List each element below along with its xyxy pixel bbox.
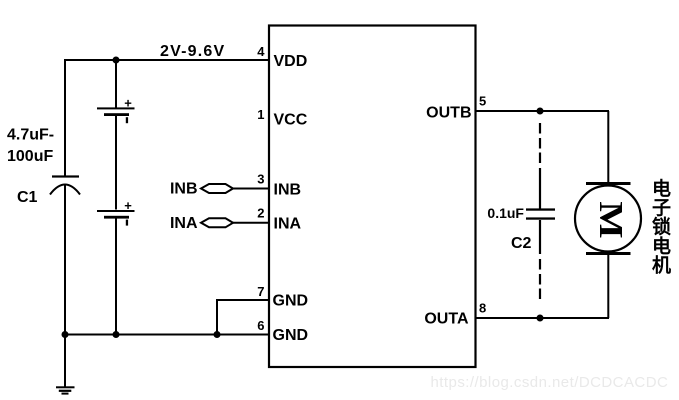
svg-text:6: 6	[257, 318, 264, 333]
svg-text:8: 8	[479, 301, 486, 316]
connector INA symbol	[201, 218, 233, 227]
wire battery branch middle	[115, 116, 117, 210]
svg-text:2V-9.6V: 2V-9.6V	[160, 43, 225, 60]
svg-text:VCC: VCC	[274, 112, 308, 129]
capacitor C2 dashed lead upper	[539, 123, 541, 209]
wire OUTA net	[476, 317, 610, 319]
pin 7 number	[257, 284, 264, 299]
pin 1 name VCC	[274, 112, 308, 129]
ground	[56, 386, 75, 394]
pin 5 number	[479, 94, 486, 109]
svg-text:1: 1	[257, 107, 264, 122]
svg-text:INB: INB	[274, 181, 302, 198]
IC U1 body	[269, 26, 476, 368]
wire left vertical upper (to C1)	[64, 60, 66, 176]
battery B1	[97, 96, 135, 124]
capacitor C1 ref label	[17, 189, 38, 206]
wire ground stub	[64, 335, 66, 387]
pin 4 name VDD	[274, 53, 308, 70]
svg-text:0.1uF: 0.1uF	[487, 205, 524, 221]
pin 8 number	[479, 301, 486, 316]
pin 2 number	[257, 206, 264, 221]
pin 3 number	[257, 172, 264, 187]
pin 6 number	[257, 318, 264, 333]
capacitor C2	[526, 208, 555, 219]
pin 3 name INB	[274, 181, 302, 198]
svg-text:OUTB: OUTB	[426, 104, 471, 121]
node junction VDD/battery	[113, 57, 120, 64]
svg-text:+: +	[124, 96, 132, 111]
svg-text:INA: INA	[274, 216, 302, 233]
wire INA	[233, 222, 269, 224]
capacitor C2 dashed lead lower	[539, 220, 541, 299]
svg-text:VDD: VDD	[274, 53, 308, 70]
svg-text:3: 3	[257, 172, 264, 187]
svg-text:GND: GND	[273, 293, 309, 310]
node INB label	[170, 181, 198, 198]
motor M1	[575, 182, 641, 255]
wire battery branch upper	[115, 60, 117, 108]
wire motor top lead	[607, 111, 609, 183]
wire battery branch lower	[115, 219, 117, 335]
wire left vertical lower (C1 to bottom net)	[64, 185, 66, 335]
svg-text:4.7uF-: 4.7uF-	[7, 127, 54, 144]
node junction OUTA/C2	[537, 315, 544, 322]
node junction bottom pin7	[214, 331, 221, 338]
capacitor C2 value label 0.1uF	[487, 205, 524, 221]
wire VDD net top	[64, 59, 269, 61]
svg-text:2: 2	[257, 206, 264, 221]
svg-text:M: M	[592, 201, 630, 238]
motor name label 电子锁电机	[652, 177, 671, 277]
svg-text:INA: INA	[170, 215, 198, 232]
capacitor C1 value label	[7, 127, 54, 166]
pin 8 name OUTA	[424, 311, 469, 328]
watermark	[431, 374, 669, 391]
svg-text:+: +	[124, 198, 132, 213]
pin 6 name GND	[273, 327, 309, 344]
capacitor C2 ref label	[511, 235, 532, 252]
node junction OUTB/C2	[537, 108, 544, 115]
pin 2 name INA	[274, 216, 302, 233]
pin 4 number	[257, 44, 265, 59]
svg-text:C2: C2	[511, 235, 532, 252]
capacitor C1	[50, 175, 80, 194]
connector INB symbol	[201, 184, 233, 193]
node junction bottom left	[62, 331, 69, 338]
svg-text:7: 7	[257, 284, 264, 299]
wire INB	[233, 188, 269, 190]
pin 7 name GND	[273, 293, 309, 310]
pin 1 number	[257, 107, 264, 122]
svg-text:OUTA: OUTA	[424, 311, 469, 328]
wire OUTB net	[476, 110, 610, 112]
svg-text:5: 5	[479, 94, 486, 109]
svg-text:电子锁电机: 电子锁电机	[652, 177, 671, 277]
node junction bottom battery	[113, 331, 120, 338]
svg-text:INB: INB	[170, 181, 198, 198]
supply voltage label 2V-9.6V	[160, 43, 225, 60]
wire GND pin7 branch	[217, 300, 269, 335]
pin 5 name OUTB	[426, 104, 471, 121]
wire bottom GND net	[65, 334, 269, 336]
node INA label	[170, 215, 198, 232]
svg-text:https://blog.csdn.net/DCDCACDC: https://blog.csdn.net/DCDCACDC	[431, 374, 669, 391]
svg-text:GND: GND	[273, 327, 309, 344]
svg-text:100uF: 100uF	[7, 148, 53, 165]
battery B2	[97, 198, 135, 226]
wire motor bottom lead	[607, 254, 609, 318]
svg-text:C1: C1	[17, 189, 38, 206]
svg-text:4: 4	[257, 44, 265, 59]
